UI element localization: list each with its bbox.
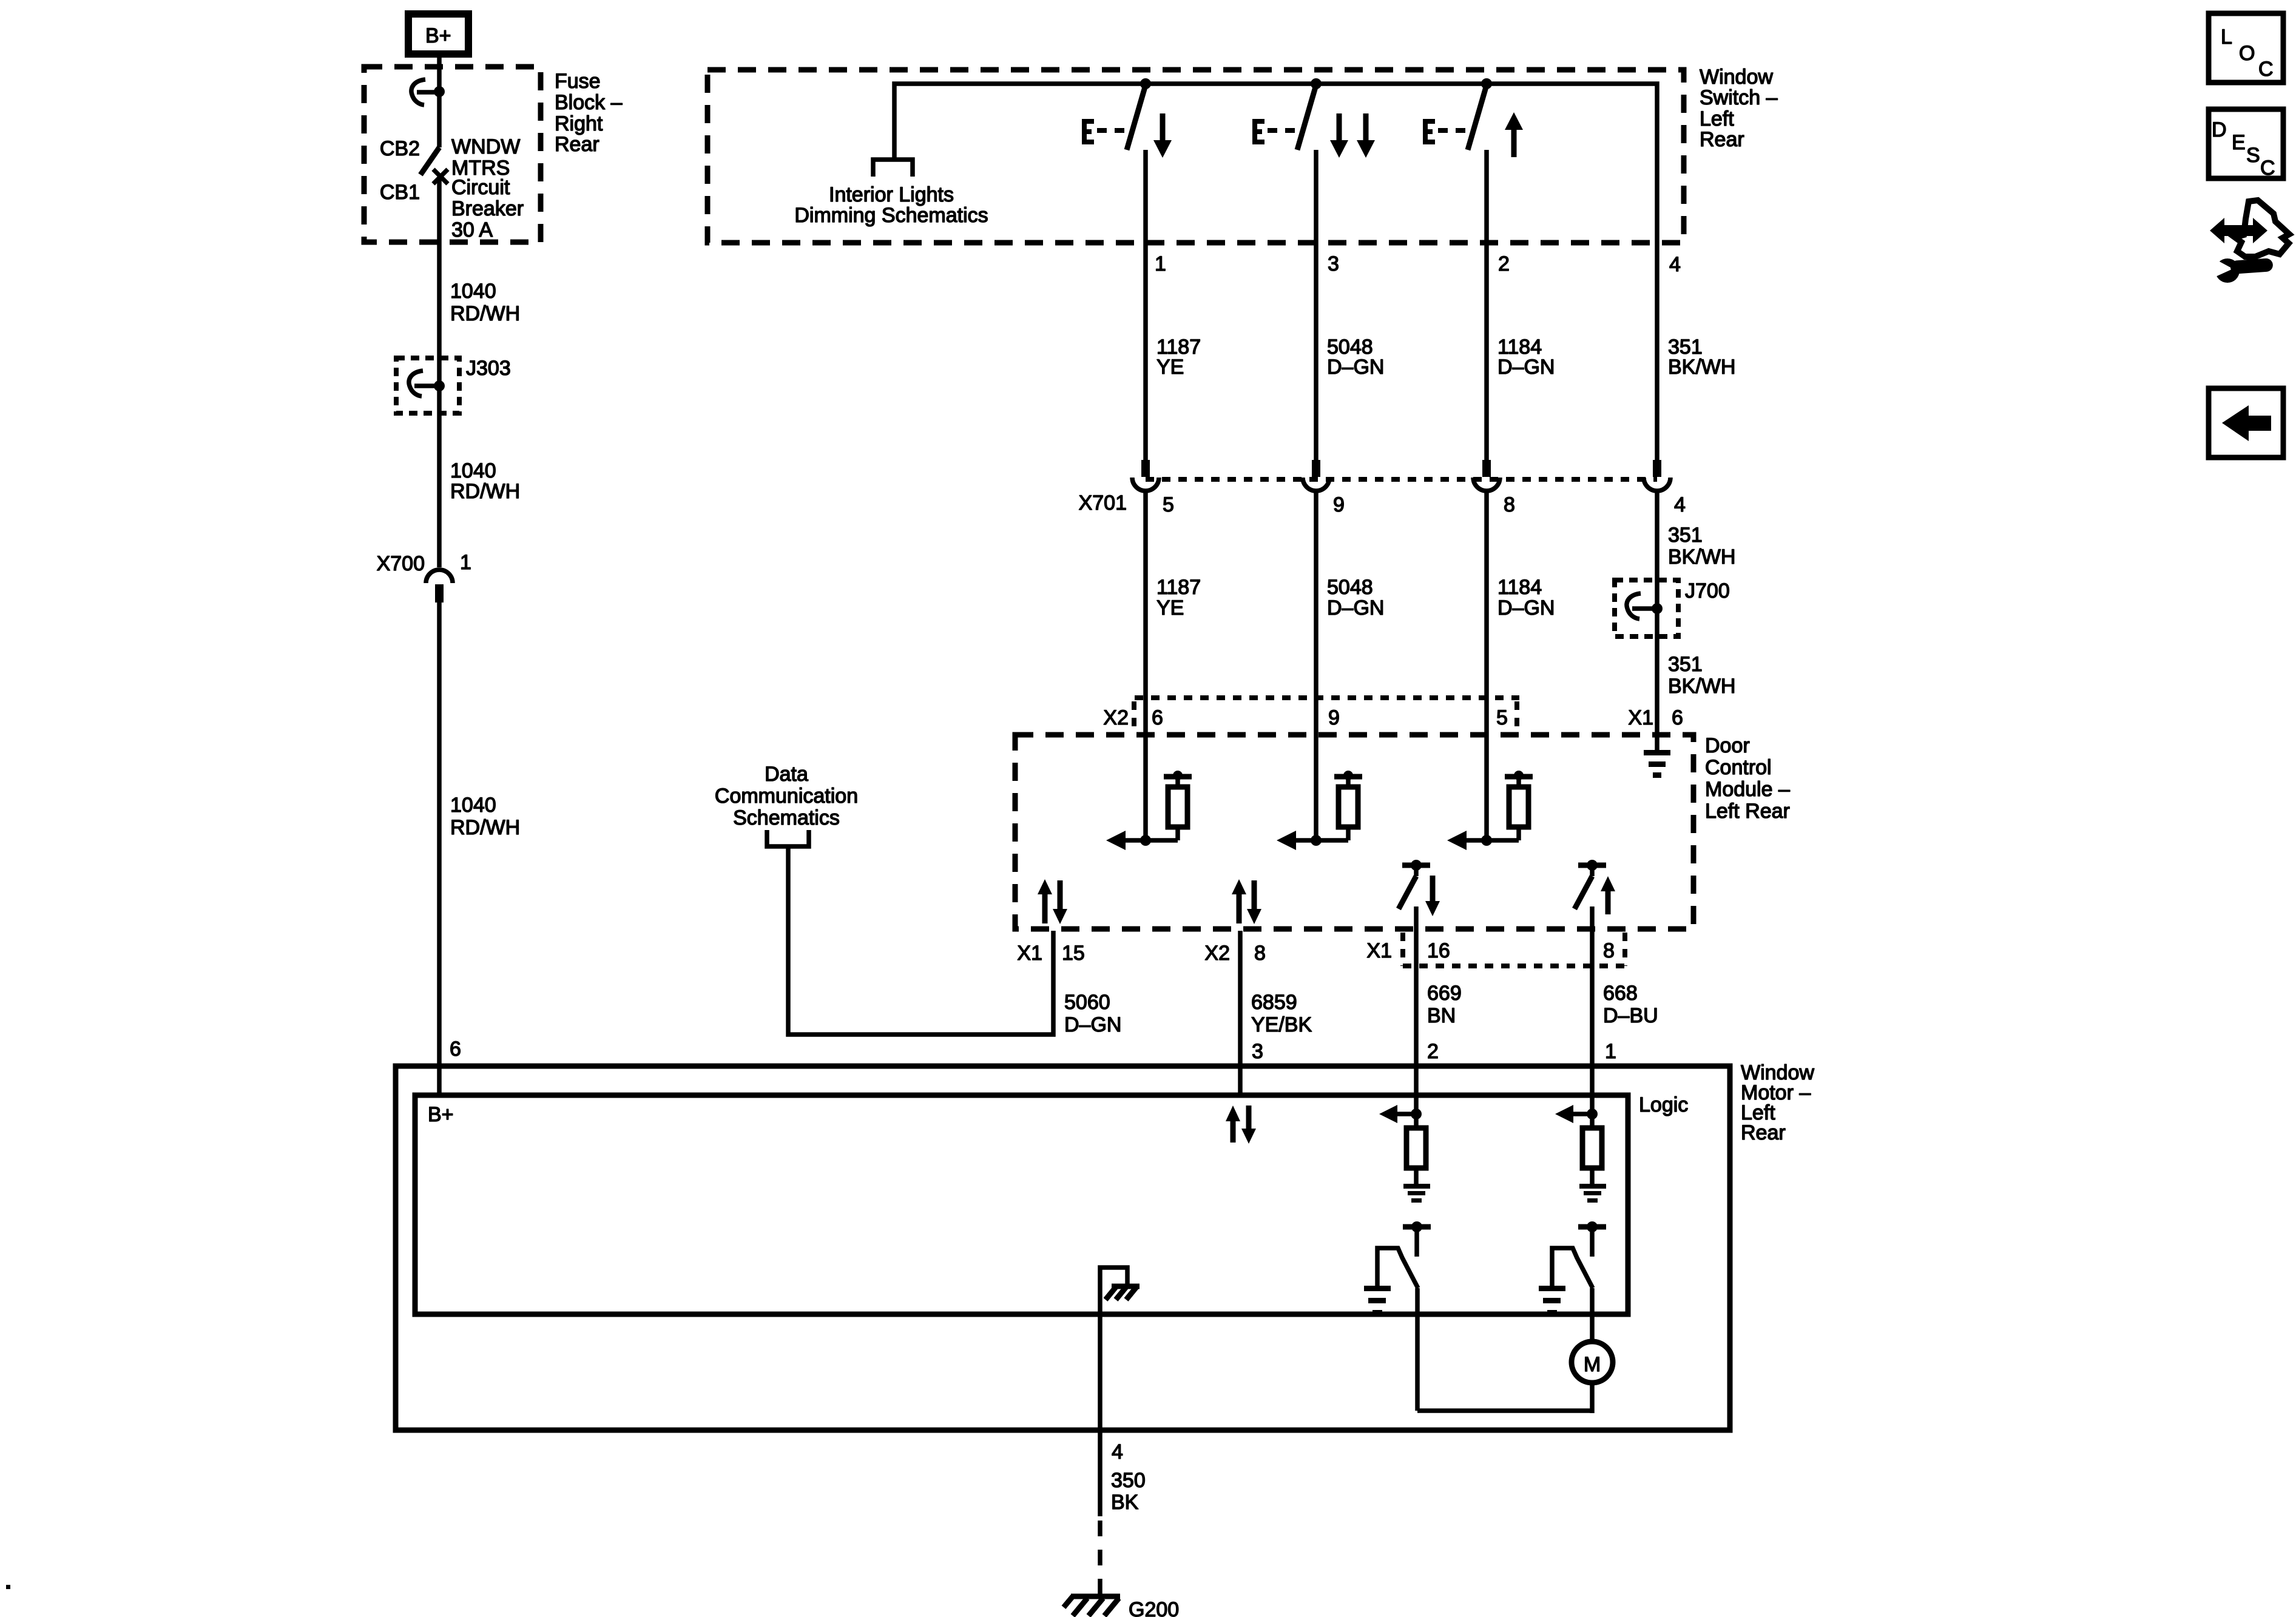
connector X2 dotted row [1134, 698, 1519, 731]
connector X701 terminal 8 (bar + cup) [1473, 460, 1500, 491]
svg-text:YE: YE [1156, 356, 1184, 379]
label: Data Communication Schematics [715, 763, 858, 829]
wire: X701-4 to module X1-6 (351 BK/WH) [1655, 491, 1660, 751]
svg-text:D–GN: D–GN [1327, 356, 1384, 379]
svg-text:M: M [1584, 1353, 1601, 1376]
wire label 669 BN [1427, 982, 1462, 1027]
switch 2 (up) junction dot [1481, 78, 1492, 89]
logic box [415, 1095, 1628, 1314]
motor switch A: arm with ground [1377, 1248, 1418, 1288]
wire: dashed to G200 [1098, 1521, 1102, 1598]
svg-text:Schematics: Schematics [733, 806, 840, 829]
svg-text:Left Rear: Left Rear [1705, 800, 1790, 823]
window switch left rear dashed box [707, 70, 1684, 243]
module switch at X1-8 (up) [1575, 860, 1615, 914]
svg-text:669: 669 [1427, 982, 1462, 1005]
svg-text:3: 3 [1252, 1040, 1263, 1063]
svg-text:X701: X701 [1079, 491, 1127, 515]
splice J700 junction dot [1652, 603, 1663, 614]
svg-text:BK/WH: BK/WH [1668, 356, 1735, 379]
connector X700 male terminal bar [435, 584, 444, 603]
svg-text:5: 5 [1496, 706, 1508, 729]
logic branch pin2: resistor [1406, 1118, 1426, 1184]
interior lights bracket [873, 160, 913, 177]
splice J303 hook [409, 371, 423, 396]
svg-text:Data: Data [765, 763, 808, 786]
svg-text:5048: 5048 [1327, 576, 1373, 599]
svg-text:E: E [2232, 131, 2246, 154]
svg-text:Logic: Logic [1639, 1093, 1688, 1116]
svg-text:YE/BK: YE/BK [1251, 1013, 1312, 1036]
wire label 351 BK/WH (above J700) [1668, 524, 1735, 569]
logic branch pin1: ground [1579, 1184, 1606, 1203]
svg-text:YE: YE [1156, 596, 1184, 619]
window motor left rear box [396, 1066, 1730, 1430]
svg-text:2: 2 [1427, 1040, 1439, 1063]
svg-text:Left: Left [1700, 107, 1734, 130]
svg-text:CB1: CB1 [380, 181, 420, 204]
splice J700 dashed box [1615, 580, 1678, 636]
connector X701 terminal 5 (bar + cup) [1132, 460, 1159, 491]
svg-text:1040: 1040 [450, 794, 496, 817]
switch 1 E-- illumination label [1082, 119, 1124, 144]
wire: switch 2 output [1484, 150, 1489, 460]
svg-text:J303: J303 [466, 357, 511, 380]
svg-text:1187: 1187 [1156, 576, 1201, 599]
svg-text:RD/WH: RD/WH [450, 302, 520, 325]
ground symbol at module X1-6 [1644, 750, 1670, 778]
switch 1 arm [1127, 85, 1146, 150]
svg-text:D–BU: D–BU [1603, 1004, 1658, 1027]
svg-text:D: D [2212, 118, 2227, 141]
svg-text:Rear: Rear [555, 133, 599, 156]
icon: back arrow box [2209, 388, 2283, 457]
page period mark [6, 1585, 10, 1589]
icon: hand with double arrow and wrench [2210, 200, 2289, 283]
svg-text:Module –: Module – [1705, 778, 1790, 801]
switch 2 E-- illumination label [1423, 119, 1465, 144]
module switch at X1-16 (down) [1399, 860, 1440, 916]
svg-text:Right: Right [555, 112, 603, 135]
svg-text:668: 668 [1603, 982, 1638, 1005]
svg-text:4: 4 [1674, 493, 1686, 516]
svg-text:BN: BN [1427, 1004, 1456, 1027]
wire label 350 BK [1111, 1469, 1146, 1514]
svg-text:1040: 1040 [450, 459, 496, 482]
node B+ (battery positive box) [408, 14, 468, 54]
wire: motor switch A output to motor loop [1415, 1288, 1420, 1411]
wire: motor M to loop [1590, 1383, 1595, 1413]
icon: LOC box [2209, 13, 2283, 83]
svg-text:X1: X1 [1017, 942, 1042, 965]
wire label 351 BK/WH (below J700) [1668, 653, 1735, 698]
icon: DESC box [2209, 109, 2283, 180]
wire: switch 3 output [1314, 150, 1319, 460]
svg-text:5: 5 [1163, 493, 1174, 516]
svg-text:D–GN: D–GN [1327, 596, 1384, 619]
wire: X701-8 to module X2-5 (1184 D-GN) [1484, 491, 1489, 840]
svg-text:Control: Control [1705, 756, 1772, 779]
wire label 351 BK/WH (upper) [1668, 336, 1735, 379]
svg-text:Window: Window [1700, 66, 1773, 89]
logic branch pin2: ground [1403, 1184, 1430, 1203]
chassis ground in logic box [1100, 1268, 1140, 1312]
svg-text:C: C [2258, 58, 2274, 81]
logic branch pin2: left arrow [1379, 1105, 1416, 1123]
svg-text:1184: 1184 [1497, 576, 1542, 599]
logic branch pin2: junction dot [1411, 1109, 1422, 1119]
svg-text:O: O [2239, 42, 2255, 65]
svg-text:D–GN: D–GN [1497, 356, 1555, 379]
connector X701 terminal 9 (bar + cup) [1303, 460, 1329, 491]
wire: module X1-16 to motor pin 2 (669 BN) [1414, 906, 1419, 1114]
svg-text:Fuse: Fuse [555, 70, 601, 93]
motor switch A: ground symbol [1364, 1286, 1391, 1315]
wire label 1187 YE (upper) [1156, 336, 1201, 379]
circuit breaker CB1/CB2 hook [411, 79, 425, 105]
switch 1 (down) junction dot [1140, 78, 1151, 89]
wire label 1184 D-GN (lower) [1497, 576, 1555, 619]
wire: X700 to window motor (1040 RD/WH) [437, 603, 442, 1095]
svg-text:1: 1 [1155, 252, 1166, 275]
logic branch pin1: left arrow [1555, 1105, 1592, 1123]
up/down arrows in logic (pin 3) [1226, 1106, 1256, 1144]
svg-text:B+: B+ [428, 1103, 454, 1126]
wire: X701-9 to module X2-9 (5048 D-GN) [1314, 491, 1319, 840]
sensor branch 2 (arrow + resistor) in module [1277, 771, 1362, 850]
svg-text:6: 6 [1152, 706, 1163, 729]
svg-text:CB2: CB2 [380, 137, 420, 160]
svg-text:Dimming Schematics: Dimming Schematics [794, 204, 988, 227]
svg-text:1: 1 [460, 551, 471, 574]
svg-text:X2: X2 [1103, 706, 1129, 729]
switch 3 (down x2) junction dot [1311, 78, 1322, 89]
svg-text:X2: X2 [1204, 942, 1230, 965]
svg-text:RD/WH: RD/WH [450, 816, 520, 839]
wire label 1187 YE (lower) [1156, 576, 1201, 619]
svg-text:Rear: Rear [1700, 128, 1744, 151]
motor switch A: fixed contact (T-bar, dot, stub) [1403, 1221, 1431, 1257]
svg-text:4: 4 [1112, 1440, 1123, 1463]
switch 3 arm [1297, 85, 1316, 150]
svg-text:Circuit: Circuit [451, 176, 510, 199]
svg-text:BK/WH: BK/WH [1668, 545, 1735, 569]
splice J700 hook [1627, 593, 1641, 619]
wire label 6859 YE/BK [1251, 991, 1312, 1036]
junction dot [434, 86, 445, 97]
svg-text:Block –: Block – [555, 91, 623, 114]
wire: ground pin 4 (350 BK) [1098, 1312, 1102, 1516]
label: WNDW MTRS Circuit Breaker 30 A [451, 135, 524, 241]
wire label 1040 RD/WH (lower) [450, 794, 520, 839]
connector X701 dotted line [1146, 477, 1657, 482]
wire label 5060 D-GN [1064, 991, 1121, 1036]
svg-text:D–GN: D–GN [1064, 1013, 1121, 1036]
splice J303 bar [414, 383, 439, 388]
svg-text:Interior Lights: Interior Lights [829, 183, 954, 206]
svg-text:Breaker: Breaker [451, 197, 524, 220]
wire: circuit breaker to X700 [437, 177, 442, 567]
svg-text:B+: B+ [425, 24, 451, 47]
svg-text:350: 350 [1111, 1469, 1146, 1492]
motor switch B: arm with ground [1552, 1248, 1593, 1288]
label: Window Switch - Left Rear [1700, 66, 1778, 151]
svg-text:8: 8 [1254, 942, 1266, 965]
svg-text:6859: 6859 [1251, 991, 1297, 1014]
svg-text:BK: BK [1111, 1491, 1139, 1514]
label: Door Control Module - Left Rear [1705, 734, 1790, 823]
label: Fuse Block - Right Rear [555, 70, 623, 156]
fuse block dashed box [364, 67, 541, 242]
module up/down arrows at X2-8 [1232, 879, 1261, 924]
svg-text:30 A: 30 A [451, 218, 493, 241]
svg-text:D–GN: D–GN [1497, 596, 1555, 619]
circuit breaker switch arm [420, 147, 439, 175]
wire: module X1-15 to data communication (5060 D-GN) [788, 846, 1053, 1035]
svg-text:351: 351 [1668, 524, 1703, 547]
svg-text:16: 16 [1427, 939, 1450, 962]
svg-text:Switch –: Switch – [1700, 86, 1778, 109]
motor switch B: ground symbol [1539, 1286, 1565, 1315]
label: Window Motor - Left Rear [1741, 1061, 1814, 1144]
wire: B+ to circuit breaker [437, 58, 442, 147]
logic branch pin1: resistor [1582, 1118, 1602, 1184]
svg-text:RD/WH: RD/WH [450, 480, 520, 503]
svg-text:C: C [2260, 157, 2275, 180]
wire: X701-5 to module X2-6 (1187 YE) [1143, 491, 1148, 840]
switch 3 double down arrows [1330, 113, 1375, 158]
svg-text:BK/WH: BK/WH [1668, 675, 1735, 698]
svg-text:L: L [2221, 25, 2232, 49]
connector X1 dotted box (pins 16, 8) [1403, 933, 1625, 966]
svg-text:S: S [2246, 144, 2260, 167]
splice J700 bar [1632, 606, 1657, 611]
svg-text:X1: X1 [1628, 706, 1653, 729]
switch 1 down arrow [1153, 113, 1172, 158]
door control module dashed box [1015, 735, 1693, 929]
svg-text:5060: 5060 [1064, 991, 1110, 1014]
svg-text:2: 2 [1498, 252, 1510, 275]
wire label 5048 D-GN (upper) [1327, 336, 1384, 379]
svg-text:WNDW: WNDW [451, 135, 520, 158]
svg-text:X700: X700 [377, 552, 425, 575]
sensor branch 1 (arrow + resistor) in module [1106, 771, 1192, 850]
svg-text:4: 4 [1669, 253, 1681, 276]
wire: switch feed bus [894, 84, 1657, 460]
svg-text:Door: Door [1705, 734, 1750, 757]
svg-text:9: 9 [1333, 493, 1345, 516]
svg-text:X1: X1 [1366, 939, 1392, 962]
logic branch pin1: junction dot [1587, 1109, 1598, 1119]
svg-text:3: 3 [1328, 252, 1339, 275]
svg-text:8: 8 [1603, 939, 1615, 962]
wire label 1184 D-GN (upper) [1497, 336, 1555, 379]
splice J303 junction dot [434, 380, 445, 391]
connector X700 female terminal arc [426, 570, 453, 583]
svg-text:1040: 1040 [450, 280, 496, 303]
wire label 668 D-BU [1603, 982, 1658, 1027]
switch 3 E-- illumination label [1252, 119, 1295, 144]
svg-text:351: 351 [1668, 653, 1703, 676]
switch 2 up arrow [1505, 112, 1523, 157]
circuit breaker bar [417, 90, 439, 95]
wire: motor bottom loop [1417, 1408, 1592, 1413]
wire: switch 1 output [1143, 150, 1148, 460]
switch 2 arm [1468, 85, 1487, 150]
wire label 5048 D-GN (lower) [1327, 576, 1384, 619]
splice J303 dashed box [396, 358, 459, 413]
wire label 1040 RD/WH (middle) [450, 459, 520, 503]
motor switch B: fixed contact (T-bar, dot, stub) [1578, 1221, 1606, 1257]
svg-text:1: 1 [1605, 1040, 1616, 1063]
motor M circle [1572, 1342, 1613, 1383]
svg-text:9: 9 [1328, 706, 1340, 729]
circuit breaker X contact mark [433, 169, 448, 184]
sensor branch 3 (arrow + resistor) in module [1447, 771, 1533, 850]
svg-text:8: 8 [1504, 493, 1515, 516]
svg-text:J700: J700 [1685, 579, 1730, 603]
label: Interior Lights Dimming Schematics [794, 183, 988, 227]
svg-text:6: 6 [1672, 706, 1683, 729]
connector X701 terminal 4 (bar + cup) [1644, 460, 1670, 491]
module up/down arrows at X1-15 [1038, 879, 1067, 924]
data communication bracket [767, 830, 809, 846]
svg-text:G200: G200 [1129, 1598, 1179, 1617]
svg-text:Communication: Communication [715, 785, 858, 808]
svg-text:6: 6 [450, 1038, 461, 1061]
svg-text:15: 15 [1062, 942, 1085, 965]
ground G200 chassis symbol [1064, 1596, 1120, 1616]
wire label 1040 RD/WH (upper) [450, 280, 520, 325]
wire: module X2-8 to motor pin 3 (6859 YE/BK) [1238, 931, 1243, 1095]
wire: module X1-8 to motor pin 1 (668 D-BU) [1590, 906, 1595, 1114]
svg-text:Rear: Rear [1741, 1121, 1786, 1144]
wire: motor switch B output to motor M [1590, 1288, 1595, 1342]
